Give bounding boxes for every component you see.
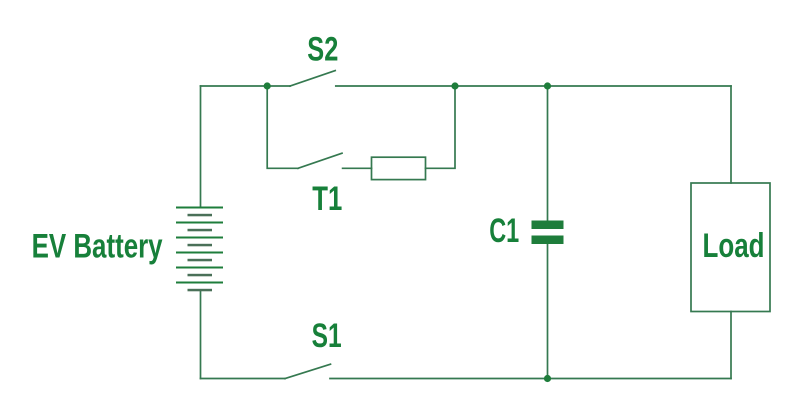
svg-text:T1: T1 <box>312 180 342 218</box>
svg-text:S2: S2 <box>307 30 338 68</box>
svg-text:EV Battery: EV Battery <box>32 227 163 265</box>
wire T1 to resistor <box>343 167 372 169</box>
wire resistor to right vertical <box>426 86 456 168</box>
capacitor C1 top plate <box>532 221 564 230</box>
junction node at capacitor bottom <box>544 375 551 382</box>
junction node at S2 left <box>264 82 271 89</box>
battery B1 long plates <box>176 207 223 284</box>
capacitor C1 bottom plate <box>532 236 564 245</box>
load box <box>691 183 770 312</box>
wire bottom-left horizontal (battery to S1) <box>201 378 286 380</box>
wire right vertical bottom (Load to bottom wire) <box>730 312 732 379</box>
svg-text:S1: S1 <box>312 317 342 355</box>
svg-text:C1: C1 <box>489 212 519 250</box>
junction node at resistor branch top <box>451 82 458 89</box>
wire top-left horizontal (battery top to S2) <box>201 85 291 87</box>
wire left vertical (top wire to battery) <box>200 86 202 208</box>
wire right vertical top (to Load) <box>730 86 732 183</box>
wire bottom horizontal (S1 to bottom-right corner) <box>330 378 731 380</box>
svg-text:Load: Load <box>703 227 765 265</box>
battery B1 short plates <box>188 214 213 291</box>
switch T1 blade <box>298 153 342 168</box>
switch S2 blade <box>290 71 335 86</box>
resistor R precharge body <box>372 157 426 179</box>
wire capacitor bottom vertical <box>547 244 549 379</box>
wire battery bottom vertical <box>200 290 202 379</box>
wire T1 branch left vertical <box>267 86 298 168</box>
wire top horizontal (S2 to top-right corner) <box>336 85 731 87</box>
switch S1 blade <box>285 364 331 378</box>
wire capacitor top vertical <box>547 86 549 221</box>
junction node at capacitor top <box>544 82 551 89</box>
